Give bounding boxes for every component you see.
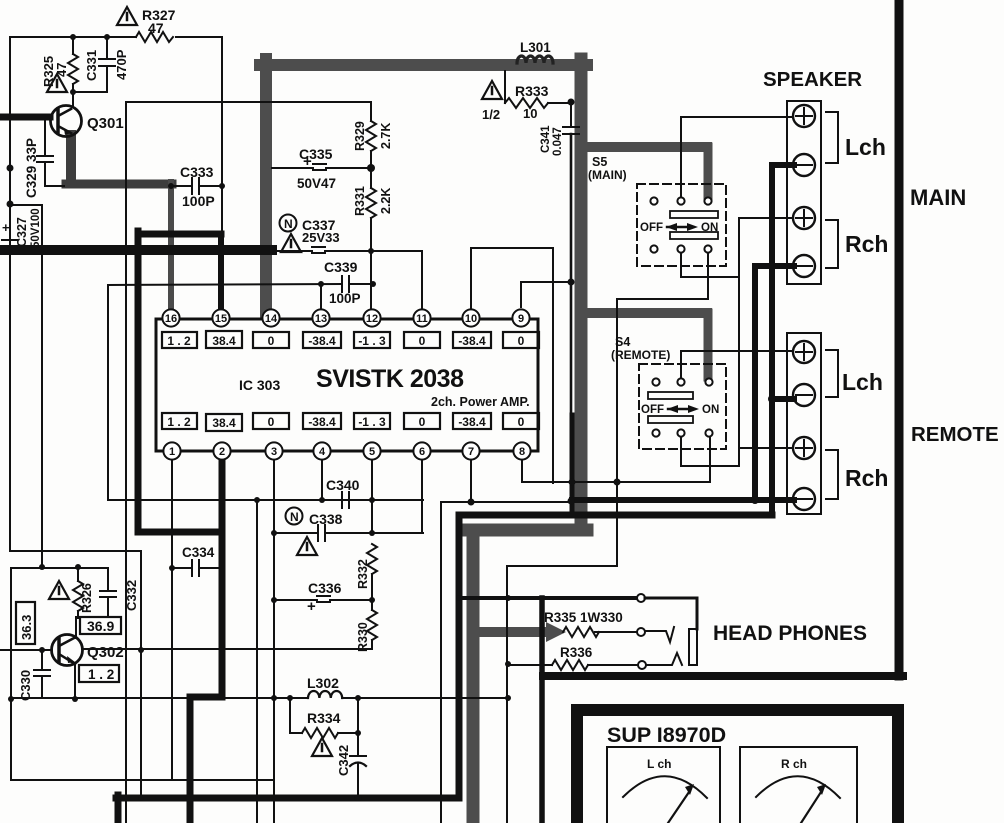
- wire: enclosure top rail with L301: [260, 59, 587, 71]
- wire: gray stub to S4: [587, 308, 707, 318]
- wire: speaker Lch return vertical x=772: [769, 165, 775, 515]
- svg-text:36.9: 36.9: [87, 618, 114, 634]
- pin 16: [162, 309, 179, 326]
- svg-text:2.7K: 2.7K: [379, 123, 393, 149]
- svg-text:OFF: OFF: [641, 404, 664, 416]
- wire: left vertical x=11: [10, 568, 12, 780]
- resistor R331: [366, 168, 376, 314]
- svg-text:0.047: 0.047: [552, 127, 564, 156]
- svg-text:470P: 470P: [114, 49, 129, 80]
- wire: S4 lower-right contact down: [709, 437, 711, 482]
- svg-text:0: 0: [268, 334, 275, 348]
- voltage boxes Q302 area: [16, 602, 121, 682]
- polarity mark N for C338: [286, 508, 303, 525]
- wire: supply jog y=532: [138, 529, 222, 536]
- svg-text:C341: C341: [540, 125, 552, 153]
- svg-text:1: 1: [169, 446, 175, 458]
- pin 7: [462, 442, 479, 459]
- wire: stub to REMOTE Rch plus: [739, 447, 793, 449]
- wire: stub to MAIN Rch minus: [755, 263, 794, 269]
- pin 14: [262, 309, 279, 326]
- wire: pin 5 down: [371, 460, 373, 533]
- inductor L301: [517, 56, 553, 63]
- wire: divider vertical x=42: [41, 205, 43, 568]
- svg-text:N: N: [290, 510, 299, 524]
- svg-text:MAIN: MAIN: [910, 185, 966, 210]
- bracket Lch REMOTE: [826, 350, 838, 397]
- wire: black horizontal y=515: [459, 512, 772, 519]
- wire: stub to REMOTE Lch minus: [772, 396, 794, 402]
- pin 13: [312, 309, 329, 326]
- svg-text:1 . 2: 1 . 2: [167, 334, 191, 348]
- wire: pin 6 down: [421, 460, 423, 533]
- switch S5 (MAIN): [637, 184, 726, 266]
- wire: emitter bottom loop y=697: [11, 697, 190, 699]
- svg-text:R336: R336: [560, 645, 593, 660]
- wire: bottom bus stub to edge: [115, 795, 122, 823]
- wire: bottom thick bus y=798: [116, 795, 459, 802]
- wire: S5 lower-right contact down: [617, 253, 708, 299]
- node: rail start: [108, 499, 423, 501]
- wire: S4 Rch+ to REMOTE speaker: [681, 437, 739, 466]
- bracket Rch MAIN: [826, 220, 838, 268]
- svg-text:2.2K: 2.2K: [379, 188, 393, 214]
- svg-text:0: 0: [419, 415, 426, 429]
- pin 1: [163, 442, 180, 459]
- wire: Q301 emitter down: [66, 135, 76, 183]
- svg-text:13: 13: [315, 313, 327, 325]
- REMOTE speaker terminal strip: [787, 333, 821, 514]
- wire: drop to pin 13: [320, 284, 322, 314]
- wire: ground vertical x=572 lower part: [570, 415, 575, 515]
- svg-text:R332: R332: [356, 559, 370, 589]
- wire: pin 4 down: [321, 460, 323, 500]
- svg-text:10: 10: [465, 313, 477, 325]
- resistor R335: [563, 627, 636, 637]
- svg-text:HEAD PHONES: HEAD PHONES: [713, 622, 867, 645]
- wire: vertical x=257: [256, 500, 258, 823]
- resistor R329: [366, 102, 376, 168]
- capacitor C339: [108, 276, 373, 292]
- headphone jack contacts: [637, 594, 646, 669]
- svg-text:R334: R334: [307, 710, 341, 726]
- svg-text:-38.4: -38.4: [458, 415, 486, 429]
- svg-text:100P: 100P: [329, 291, 361, 306]
- wire: switched feed x=617: [616, 299, 618, 566]
- svg-text:6: 6: [419, 446, 425, 458]
- capacitor C335: [272, 164, 371, 170]
- svg-text:47: 47: [148, 20, 164, 36]
- transistor Q301: [51, 106, 82, 137]
- capacitor C329: [37, 120, 64, 186]
- svg-text:47: 47: [54, 63, 69, 77]
- svg-text:R330: R330: [356, 622, 370, 652]
- switch S4 (REMOTE): [639, 364, 726, 449]
- svg-text:0: 0: [419, 334, 426, 348]
- svg-text:R331: R331: [353, 186, 367, 216]
- svg-text:Lch: Lch: [845, 134, 886, 160]
- svg-text:1 . 2: 1 . 2: [88, 667, 114, 682]
- svg-text:11: 11: [416, 313, 428, 325]
- bracket Lch MAIN: [826, 112, 838, 163]
- wire: vertical x=441: [440, 502, 442, 823]
- svg-text:0: 0: [518, 415, 525, 429]
- wire: top rail y=37: [10, 36, 136, 38]
- wire: base/R330 rail y=649: [82, 648, 372, 650]
- svg-text:R335 1W330: R335 1W330: [544, 610, 623, 625]
- svg-text:50V100: 50V100: [30, 208, 42, 248]
- headphone jack body: [645, 598, 697, 665]
- svg-text:C333: C333: [180, 164, 214, 180]
- svg-text:C331: C331: [84, 50, 99, 81]
- wire: thick y=500 to REMOTE Rch minus: [572, 497, 794, 503]
- bracket Rch REMOTE: [826, 450, 838, 499]
- svg-text:R326: R326: [80, 583, 94, 613]
- svg-text:-38.4: -38.4: [308, 415, 336, 429]
- svg-text:C338: C338: [309, 511, 343, 527]
- wire: pin 8 to switch output bus y=482: [522, 460, 710, 482]
- wire: gray vertical down to bottom: [467, 530, 480, 823]
- wire: Q302 collector rail y=568: [11, 567, 108, 569]
- svg-text:R333: R333: [515, 83, 549, 99]
- wire: head phones box bottom: [543, 672, 903, 680]
- svg-text:SVISTK 2038: SVISTK 2038: [316, 365, 464, 393]
- svg-text:C342: C342: [336, 745, 351, 776]
- svg-text:+: +: [2, 220, 10, 235]
- capacitor C332 parallel cap: [78, 568, 116, 617]
- wire: drop to pin 16: [168, 182, 174, 314]
- polarity mark N for C337: [280, 215, 297, 232]
- svg-text:C336: C336: [308, 580, 342, 596]
- svg-text:8: 8: [519, 446, 525, 458]
- svg-text:Lch: Lch: [842, 369, 883, 395]
- capacitor C327: [2, 240, 17, 246]
- svg-text:25V33: 25V33: [302, 230, 340, 245]
- svg-text:36.3: 36.3: [19, 615, 34, 640]
- transistor Q302: [52, 635, 83, 666]
- svg-text:Q301: Q301: [87, 115, 124, 132]
- svg-text:ON: ON: [702, 404, 719, 416]
- triangle R326: [49, 581, 69, 599]
- svg-text:10: 10: [523, 106, 537, 121]
- svg-text:0: 0: [518, 334, 525, 348]
- wire: gray turn left: [467, 524, 587, 537]
- svg-text:L302: L302: [307, 675, 339, 691]
- wire: enclosure right vertical: [575, 59, 588, 530]
- svg-text:C329 33P: C329 33P: [24, 138, 39, 198]
- wire: gray stub to S5: [587, 142, 707, 152]
- SUP meter boxes: [607, 747, 857, 823]
- capacitor C340: [342, 492, 349, 508]
- svg-text:-38.4: -38.4: [308, 334, 336, 348]
- svg-text:100P: 100P: [182, 193, 215, 209]
- resistor R333: [505, 71, 571, 108]
- triangle C342: [312, 738, 332, 756]
- svg-text:Rch: Rch: [845, 465, 888, 491]
- resistor R332: [367, 544, 377, 574]
- value boxes top row: [162, 332, 197, 348]
- wire: R325/C331 bottom join: [73, 91, 107, 92]
- wire: pin 9 link: [521, 282, 571, 307]
- svg-text:38.4: 38.4: [212, 416, 236, 430]
- svg-text:-38.4: -38.4: [458, 334, 486, 348]
- wire: thick rail at y=250 from left edge: [0, 245, 272, 255]
- svg-text:0: 0: [268, 415, 275, 429]
- capacitor C341: [563, 103, 579, 134]
- pin 8: [513, 442, 530, 459]
- pin 15: [212, 309, 229, 326]
- pin 4: [313, 442, 330, 459]
- wire: continue down to bottom edge: [187, 697, 194, 823]
- wire: rail y=551: [10, 550, 141, 552]
- wire: pin 7 down: [470, 460, 472, 502]
- svg-text:16: 16: [165, 313, 177, 325]
- wire: emitter run right: [66, 180, 172, 189]
- wire: pin 3 down: [273, 460, 275, 823]
- svg-text:4: 4: [319, 446, 326, 458]
- svg-text:OFF: OFF: [640, 222, 663, 234]
- svg-text:9: 9: [518, 313, 524, 325]
- capacitor C334: [172, 560, 218, 576]
- wire: common plus riser x=739: [738, 218, 740, 466]
- capacitor C338: [274, 525, 423, 541]
- wire: jog left at y=697: [190, 694, 222, 701]
- pin 10: [462, 309, 479, 326]
- wire: SUP feed vertical x=543: [539, 598, 545, 823]
- svg-text:5: 5: [369, 446, 375, 458]
- svg-text:C327: C327: [15, 217, 29, 247]
- svg-text:S5: S5: [592, 155, 607, 169]
- wire: meter bus y=563: [507, 565, 617, 567]
- capacitor C331: [99, 37, 115, 91]
- svg-text:C332: C332: [124, 580, 139, 611]
- svg-text:SPEAKER: SPEAKER: [763, 68, 862, 91]
- svg-text:C334: C334: [182, 545, 215, 560]
- wire: rail y=780: [11, 779, 274, 781]
- svg-text:R ch: R ch: [781, 757, 807, 771]
- svg-text:15: 15: [215, 313, 227, 325]
- wire: S5 Lch+ to MAIN speaker: [681, 117, 793, 197]
- pin 9: [512, 309, 529, 326]
- svg-text:C340: C340: [326, 477, 360, 493]
- wire: pin 10 link: [471, 248, 553, 314]
- wire: output/zobel vertical x=571: [570, 134, 573, 500]
- svg-text:REMOTE: REMOTE: [911, 423, 999, 446]
- wire: supply horizontal y=234 to pin15 drop: [138, 231, 221, 238]
- resistor R326: [73, 567, 83, 618]
- svg-text:50V47: 50V47: [297, 176, 336, 191]
- svg-text:L ch: L ch: [647, 757, 671, 771]
- svg-text:C330: C330: [18, 670, 33, 701]
- wire: headphone line y=598: [459, 596, 637, 600]
- IC303 power amp block: [156, 309, 539, 459]
- svg-text:2: 2: [219, 446, 225, 458]
- wire: S4 Lch+ to REMOTE speaker: [681, 351, 793, 378]
- wire: drop to pin 15: [218, 234, 224, 314]
- pin 6: [413, 442, 430, 459]
- meter Lch arc + needle: [623, 776, 707, 798]
- svg-text:+: +: [307, 598, 316, 615]
- wire: R327 output down x=222: [221, 37, 223, 232]
- wire: link y=205: [10, 204, 42, 206]
- capacitor C337: [272, 247, 422, 253]
- svg-text:7: 7: [468, 446, 474, 458]
- wire: Q302 emitter: [74, 663, 76, 699]
- pin 3: [265, 442, 282, 459]
- wire: Q302 collector lead: [75, 617, 77, 638]
- wire: long vertical x=126 (C332 net): [125, 102, 127, 823]
- resistor R334: [290, 698, 358, 738]
- wire: vertical x=141: [140, 551, 142, 798]
- value boxes bottom row: [162, 413, 197, 429]
- svg-text:Q302: Q302: [87, 644, 124, 661]
- svg-text:2ch. Power AMP.: 2ch. Power AMP.: [431, 395, 530, 409]
- pin 11: [413, 309, 430, 326]
- svg-text:+: +: [303, 153, 312, 170]
- svg-text:S4: S4: [615, 335, 630, 349]
- wire: gray arrow feed to R335: [479, 627, 547, 637]
- capacitor C333: [171, 178, 222, 194]
- triangle R325: [47, 74, 67, 92]
- resistor R327: [136, 32, 173, 42]
- svg-text:-1 . 3: -1 . 3: [358, 415, 386, 429]
- wire: Q302 base line: [0, 649, 52, 651]
- resistor R330: [367, 574, 377, 649]
- svg-text:R329: R329: [353, 121, 367, 151]
- svg-text:Rch: Rch: [845, 231, 888, 257]
- wire: supply vertical x=138: [135, 231, 142, 532]
- IC pin numbers: [165, 313, 525, 458]
- svg-text:-1 . 3: -1 . 3: [358, 334, 386, 348]
- capacitor C336: [274, 596, 372, 602]
- capacitor C330: [34, 650, 50, 697]
- wire: enclosure left vertical to pin 14: [260, 59, 272, 314]
- resistor R325: [68, 37, 78, 92]
- inductor L302: [222, 691, 508, 698]
- wire: speaker Rch return vertical x=755: [752, 266, 758, 500]
- wire: stub to MAIN Lch minus: [772, 162, 794, 168]
- wire: left border vertical x=10: [9, 37, 11, 551]
- svg-text:N: N: [284, 217, 293, 231]
- svg-text:L301: L301: [520, 40, 551, 55]
- wire: pin 1 down: [171, 460, 173, 780]
- wire: link y=502: [441, 501, 572, 503]
- triangle C338: [297, 537, 317, 555]
- svg-text:(MAIN): (MAIN): [588, 168, 627, 182]
- IC value texts: [167, 334, 524, 430]
- wire: stub to MAIN Rch plus: [739, 217, 793, 219]
- pin 2: [213, 442, 230, 459]
- svg-text:IC 303: IC 303: [239, 377, 280, 393]
- svg-text:3: 3: [271, 446, 277, 458]
- capacitor C342: [350, 733, 366, 798]
- svg-text:1/2: 1/2: [482, 107, 500, 122]
- pin 12: [363, 309, 380, 326]
- wire: left feed into Q301 base: [0, 114, 50, 121]
- svg-text:SUP I8970D: SUP I8970D: [607, 723, 726, 747]
- wire: S5 Rch+ to MAIN speaker: [681, 253, 739, 277]
- wire: meter feed vertical x=553: [552, 248, 554, 483]
- svg-text:C339: C339: [324, 259, 358, 275]
- svg-text:12: 12: [366, 313, 378, 325]
- meter Rch arc + needle: [756, 776, 840, 798]
- wire: black vertical x=459: [456, 515, 463, 798]
- SUP 18970D block frame: [577, 710, 898, 823]
- pin 5: [363, 442, 380, 459]
- svg-text:(REMOTE): (REMOTE): [611, 348, 670, 362]
- wire: pin 2 thick vertical down: [219, 457, 226, 697]
- triangle R333: [482, 81, 502, 99]
- resistor R336: [508, 660, 637, 670]
- wire: top feedback rail y=102: [126, 101, 371, 103]
- svg-text:14: 14: [265, 313, 278, 325]
- wire: main right border: [895, 0, 904, 676]
- svg-text:1 . 2: 1 . 2: [167, 415, 191, 429]
- triangle R327: [117, 7, 137, 25]
- svg-text:ON: ON: [701, 222, 718, 234]
- wire: feedback vertical x=108: [107, 285, 109, 500]
- warning triangle symbols: [47, 7, 502, 756]
- wire: drop to pin 11: [421, 251, 423, 314]
- wire: R336/L302 vertical x=508: [506, 566, 508, 823]
- MAIN speaker terminal strip: [787, 101, 821, 284]
- svg-text:38.4: 38.4: [212, 334, 236, 348]
- triangle C337: [281, 234, 301, 252]
